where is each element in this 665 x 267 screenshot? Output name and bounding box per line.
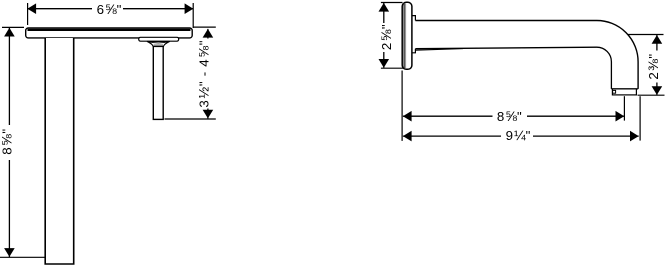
dimension 2-5/8 left of escutcheon <box>378 3 394 68</box>
handle cone joint <box>147 41 170 46</box>
handle escutcheon disc <box>139 37 179 41</box>
svg-text:3½" - 4⅝": 3½" - 4⅝" <box>195 40 211 108</box>
dimension 9-1/4 bottom right view <box>403 127 639 143</box>
spout collar at wall <box>412 16 416 53</box>
dimension 6-5/8 top <box>27 1 193 17</box>
extension line top for 8-5/8 <box>2 26 24 28</box>
dimension 8-5/8 bottom right view <box>403 108 624 124</box>
wall escutcheon <box>402 2 412 69</box>
svg-text:8⅝": 8⅝" <box>497 108 522 124</box>
extension line bottom for 3-1/2 <box>165 118 216 120</box>
extension line right of 6-5/8 <box>192 3 194 28</box>
handle stem <box>153 46 163 119</box>
extension line bottom for 2-3/8 <box>638 94 665 96</box>
extension line top for 3-1/2 <box>193 26 216 28</box>
svg-text:8⅝": 8⅝" <box>0 128 14 154</box>
svg-text:2⅜": 2⅜" <box>645 53 661 79</box>
extension line top for 2-3/8 <box>628 34 664 36</box>
dimension 8-5/8 left <box>0 28 15 257</box>
aerator tip <box>612 89 636 95</box>
extension line left wall for bottom dims <box>401 71 403 141</box>
extension line spout outer edge for 9-1/4 <box>639 96 641 140</box>
extension line bottom for 8-5/8 <box>0 256 45 258</box>
spout tube with bend <box>415 21 638 89</box>
dimension 2-3/8 right of spout <box>645 35 662 95</box>
extension line top for 2-5/8 <box>381 2 403 4</box>
baseplate <box>26 28 193 38</box>
spout column <box>45 38 73 264</box>
svg-text:2⅝": 2⅝" <box>378 24 394 50</box>
svg-text:6⅝": 6⅝" <box>97 1 122 17</box>
extension line left of 6-5/8 <box>27 3 29 25</box>
extension line aerator center for 8-5/8 <box>623 96 625 120</box>
svg-text:9¼": 9¼" <box>506 127 531 143</box>
dimension 3-1/2 - 4-5/8 right <box>195 29 213 119</box>
extension line bottom for 2-5/8 <box>381 67 405 69</box>
